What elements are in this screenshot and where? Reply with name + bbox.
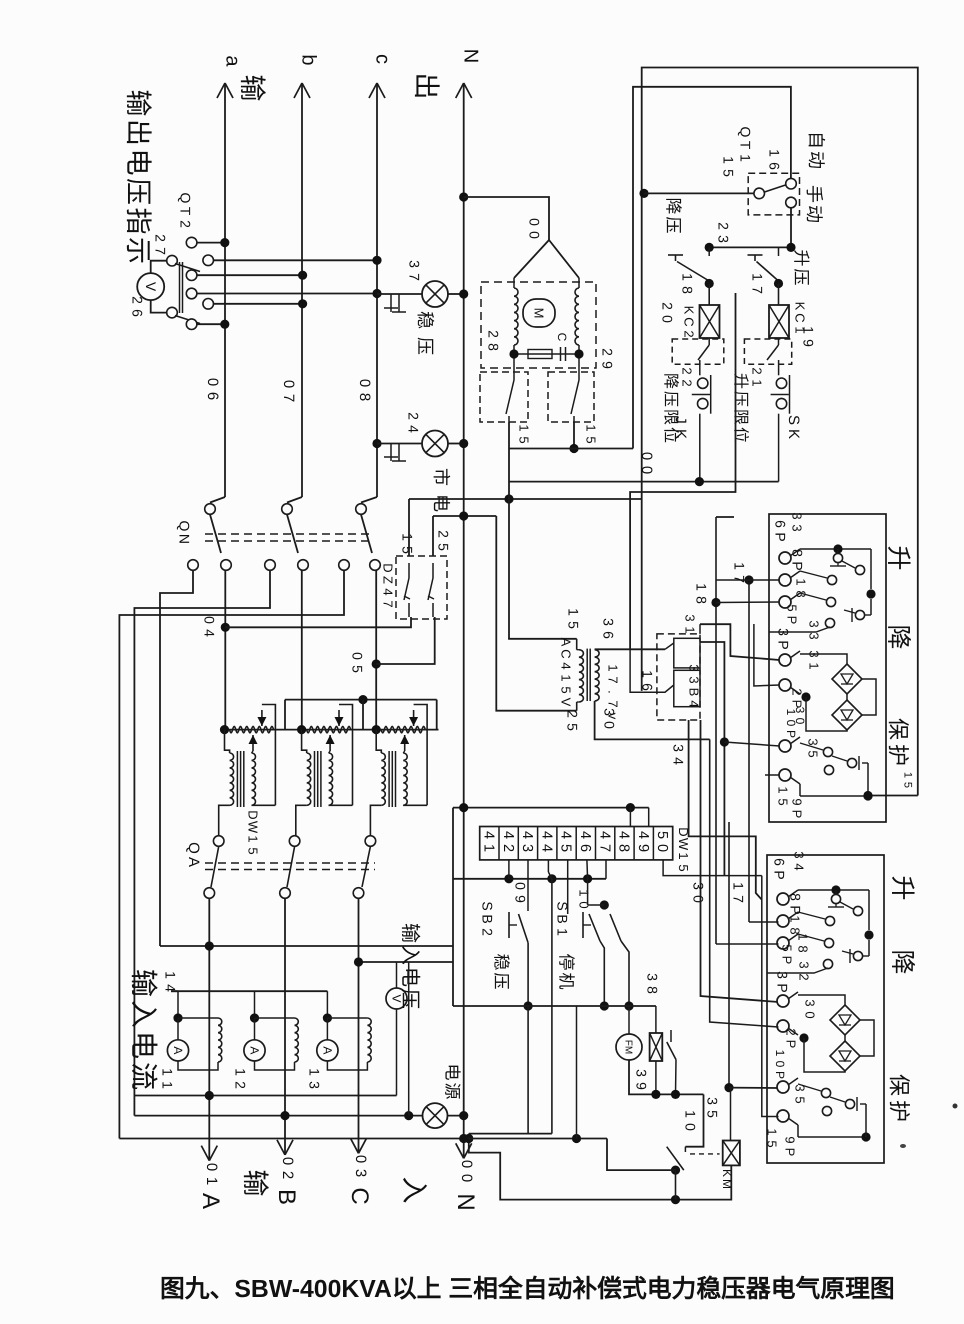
transformer Ta secondary bottom xyxy=(252,804,276,806)
selector QT1 contact manual xyxy=(786,197,797,208)
svg-text:位: 位 xyxy=(732,427,750,443)
node 10-905 xyxy=(600,900,609,909)
terminal 8P box514 xyxy=(779,574,791,586)
node line-c-729 xyxy=(372,725,381,734)
rectifier link box514 xyxy=(846,694,848,700)
wire QT2 to line a lower xyxy=(197,323,225,325)
wire 23 xyxy=(709,246,791,248)
svg-text:1: 1 xyxy=(676,852,691,859)
svg-text:3: 3 xyxy=(704,1097,720,1105)
terminal 8P box855 xyxy=(777,915,789,927)
wire CT loop 12 xyxy=(255,1017,295,1019)
svg-text:限: 限 xyxy=(732,409,749,425)
contact 15R xyxy=(578,368,580,380)
svg-text:A: A xyxy=(197,1193,224,1209)
svg-text:N: N xyxy=(459,49,481,63)
selector QT2 common terminals xyxy=(167,255,178,266)
svg-text:2: 2 xyxy=(152,234,168,242)
wire lamp24 left xyxy=(377,443,422,445)
svg-text:3: 3 xyxy=(352,1169,369,1177)
transformer Ta secondary coil xyxy=(252,753,256,805)
aux contact KC1 blade xyxy=(778,338,780,345)
wire 00 row above strip xyxy=(453,807,649,809)
svg-text:P: P xyxy=(783,1148,798,1157)
wire 33B4 out 34 xyxy=(689,720,762,900)
wire KM top xyxy=(730,1088,732,1141)
wire 15 to QT1 xyxy=(644,192,754,194)
motor unit dashed box xyxy=(481,282,596,368)
wire CT loop 11 xyxy=(178,1017,218,1019)
svg-text:8: 8 xyxy=(356,393,373,401)
node N-516 xyxy=(459,511,468,520)
svg-text:K: K xyxy=(793,302,808,311)
svg-text:8: 8 xyxy=(794,590,809,597)
wire row2 y1115 xyxy=(134,1115,422,1117)
svg-text:a: a xyxy=(221,55,243,67)
svg-text:入: 入 xyxy=(128,1000,159,1028)
selector QT2 contact b2 xyxy=(203,299,214,310)
selector QT2 contact b1 xyxy=(186,270,197,281)
selector QT2 contact a1 xyxy=(186,237,197,248)
svg-text:5: 5 xyxy=(793,1096,808,1103)
svg-text:0: 0 xyxy=(659,315,675,323)
breaker QN pole b blade xyxy=(287,515,298,554)
wire net16 jog xyxy=(630,649,674,692)
svg-text:V: V xyxy=(143,282,159,292)
wire N to motor fork xyxy=(464,197,549,240)
wire 35 net xyxy=(728,822,730,1088)
node FM-top xyxy=(624,1001,633,1010)
wire tap riser a xyxy=(284,700,286,730)
node 44-drop xyxy=(547,874,556,883)
svg-text:3: 3 xyxy=(806,738,821,745)
breaker QA pole a xyxy=(213,836,224,847)
svg-text:示: 示 xyxy=(123,237,153,264)
node 17-580 xyxy=(744,575,753,584)
wire SB2 net drop xyxy=(527,1006,529,1134)
wire 33B4 out 31 xyxy=(700,624,780,660)
svg-text:输: 输 xyxy=(240,1170,270,1197)
lamp37 series marks xyxy=(390,294,392,312)
svg-text:3: 3 xyxy=(807,632,822,639)
AC transformer primary coil xyxy=(576,639,578,650)
svg-text:1: 1 xyxy=(246,835,261,842)
breaker QN pole c blade xyxy=(361,515,372,554)
svg-text:4: 4 xyxy=(538,831,554,839)
wire output line b (07) xyxy=(301,83,303,497)
svg-text:1: 1 xyxy=(481,844,497,852)
svg-text:D: D xyxy=(246,810,261,819)
svg-text:出: 出 xyxy=(411,73,441,100)
svg-text:1: 1 xyxy=(731,562,747,570)
node c-293 xyxy=(372,289,381,298)
svg-text:0: 0 xyxy=(280,380,297,388)
svg-text:8: 8 xyxy=(616,844,632,852)
terminal 5Pa box855 xyxy=(777,937,789,949)
capacitor C xyxy=(560,347,562,361)
svg-text:压: 压 xyxy=(791,269,810,286)
transformer Tb secondary coil xyxy=(329,753,333,805)
svg-text:1: 1 xyxy=(399,533,415,541)
wire 50 to box2 xyxy=(663,860,762,876)
svg-text:8: 8 xyxy=(796,945,811,952)
svg-text:压: 压 xyxy=(415,337,435,355)
svg-text:4: 4 xyxy=(381,588,396,595)
indicator lamp power 电源 xyxy=(423,1103,448,1128)
CT coil 12 xyxy=(295,1018,299,1062)
svg-text:压: 压 xyxy=(491,973,510,990)
svg-text:停: 停 xyxy=(556,954,575,971)
wire AC secondary bottom (30) xyxy=(595,701,710,739)
svg-text:9: 9 xyxy=(512,895,528,903)
svg-text:1: 1 xyxy=(203,1177,220,1185)
relay 33B4 blade upper xyxy=(665,643,674,649)
wire flag bottom xyxy=(655,1061,657,1094)
button lower (降) T-bar xyxy=(668,254,683,256)
aux contact box KC1 xyxy=(744,339,791,364)
contact 10P group box855 xyxy=(821,1088,830,1097)
wire tap riser b xyxy=(362,700,364,730)
motor coil left xyxy=(514,288,518,345)
selector QT1 common xyxy=(754,188,765,199)
wire DZ47 pole1 to 15 bus xyxy=(408,499,410,556)
CT coil 13 xyxy=(367,1018,371,1062)
breaker QN pole c bottom contacts xyxy=(339,560,350,571)
svg-text:3: 3 xyxy=(803,999,818,1006)
svg-text:9: 9 xyxy=(599,361,615,369)
svg-text:7: 7 xyxy=(381,600,396,607)
voltmeter V input xyxy=(386,988,407,1009)
flag box 38 xyxy=(655,1006,657,1033)
svg-text:3: 3 xyxy=(807,620,822,627)
node line-b-729 xyxy=(297,725,306,734)
node 10P1-branch xyxy=(720,737,729,746)
relay coil KC1 xyxy=(778,284,780,306)
ammeter A11 xyxy=(167,1040,188,1061)
svg-text:P: P xyxy=(784,730,798,738)
svg-text:0: 0 xyxy=(638,452,655,460)
svg-text:0: 0 xyxy=(803,1011,818,1018)
transformer Tc tap rectangle xyxy=(414,705,428,806)
wire ammeter top 13 xyxy=(326,1018,328,1040)
wire series winding line xyxy=(225,729,439,731)
button SB1 drop from 45 xyxy=(567,860,569,914)
breaker DZ47 dashed box xyxy=(396,556,447,619)
wire output line c (08) xyxy=(376,83,378,497)
wire 10 row xyxy=(588,904,605,906)
lamp24 series marks xyxy=(390,444,392,462)
wire DZ47 pole2 to 25 bus xyxy=(432,516,434,556)
wire tap common bus xyxy=(285,699,437,701)
relay 33B4 body stub xyxy=(699,624,701,634)
wire net36 xyxy=(630,293,735,649)
node 576-1138 xyxy=(572,1134,581,1143)
breaker QN pole c top xyxy=(361,497,377,503)
svg-text:4: 4 xyxy=(559,662,574,669)
CT drop 12 xyxy=(254,991,256,1018)
svg-text:6: 6 xyxy=(577,844,593,852)
svg-text:A: A xyxy=(185,857,202,867)
wire 9P bottom box514 xyxy=(799,784,801,796)
svg-text:P: P xyxy=(772,532,788,541)
svg-text:C: C xyxy=(555,333,569,342)
wire 44 net drop xyxy=(551,879,553,1134)
contact 2P to rectifier box855 xyxy=(799,1033,808,1042)
wire AC secondary top (36) xyxy=(595,648,665,650)
transformer Tb tap arrow up xyxy=(329,735,331,751)
node line-a-729 xyxy=(220,725,229,734)
wire JK riser to QT1 xyxy=(633,87,791,449)
svg-text:A: A xyxy=(171,1046,185,1054)
ammeter A13 xyxy=(317,1040,338,1061)
svg-text:动: 动 xyxy=(804,205,824,223)
svg-text:2: 2 xyxy=(435,530,451,538)
svg-text:降: 降 xyxy=(662,373,680,389)
node 17-button xyxy=(774,279,783,288)
terminal 2P box855 xyxy=(777,1020,789,1032)
transformer Tc core xyxy=(388,751,390,807)
wire input line C xyxy=(358,899,360,1154)
wire QT1 manual to 23 xyxy=(790,208,792,247)
svg-text:输: 输 xyxy=(398,923,420,943)
wire left contact to net15 xyxy=(508,422,510,639)
svg-text:入: 入 xyxy=(399,1177,429,1204)
svg-text:b: b xyxy=(297,54,319,65)
wire QN a-right down (04 net) xyxy=(224,571,226,730)
button SB2 blade xyxy=(519,914,529,943)
svg-text:5: 5 xyxy=(806,750,821,757)
wire tap to 49 xyxy=(648,808,650,827)
wire FM top xyxy=(628,1006,630,1034)
transformer Tb series winding xyxy=(307,726,351,732)
svg-text:K: K xyxy=(672,429,689,439)
svg-text:5: 5 xyxy=(349,665,365,673)
svg-text:C: C xyxy=(682,317,697,326)
svg-text:0: 0 xyxy=(690,895,706,903)
svg-text:5: 5 xyxy=(654,831,670,839)
node 655-1094 xyxy=(651,1090,660,1099)
svg-text:3: 3 xyxy=(715,235,731,243)
selector QT2 contact a2 xyxy=(186,319,197,330)
svg-text:1: 1 xyxy=(749,273,765,281)
svg-text:1: 1 xyxy=(606,664,621,671)
svg-text:0: 0 xyxy=(512,882,528,890)
svg-text:2: 2 xyxy=(659,302,675,310)
svg-text:3: 3 xyxy=(406,260,422,268)
svg-text:6: 6 xyxy=(772,520,788,528)
svg-text:M: M xyxy=(532,308,547,319)
wire net17 riser xyxy=(748,580,750,922)
wire 04 to DZ47 pole1 xyxy=(225,617,411,627)
svg-text:电: 电 xyxy=(431,494,451,512)
wire CT bus left end xyxy=(171,990,178,992)
svg-text:Z: Z xyxy=(381,576,396,584)
svg-text:自: 自 xyxy=(806,131,826,149)
wire SB1 down 2 xyxy=(621,941,629,1006)
svg-text:出: 出 xyxy=(123,119,153,146)
svg-text:压: 压 xyxy=(732,391,749,407)
wire input line B xyxy=(284,899,286,1155)
contact 10 link dashes xyxy=(690,1153,720,1155)
transformer Tc primary bottom to QA xyxy=(370,805,381,835)
svg-text:4: 4 xyxy=(481,831,497,839)
svg-text:7: 7 xyxy=(731,575,747,583)
svg-text:5: 5 xyxy=(399,546,415,554)
svg-text:2: 2 xyxy=(680,367,695,374)
wire row y946 xyxy=(160,945,453,947)
wire QT2 to line b lower xyxy=(214,303,303,305)
wire net15 to AC primary xyxy=(508,638,577,640)
wire 00 bus xyxy=(509,481,779,483)
svg-text:1: 1 xyxy=(159,1068,175,1076)
relay coil KM xyxy=(723,1141,740,1166)
wire QN c-left to input C riser xyxy=(119,571,344,1139)
svg-text:1: 1 xyxy=(796,933,811,940)
svg-text:0: 0 xyxy=(349,652,365,660)
node 18-button xyxy=(705,279,714,288)
svg-text:7: 7 xyxy=(152,247,168,255)
svg-text:8: 8 xyxy=(644,986,660,994)
wire motor fork right xyxy=(549,240,579,278)
svg-text:0: 0 xyxy=(682,1123,698,1131)
wire box1 15 out xyxy=(869,795,918,797)
svg-text:3: 3 xyxy=(793,1084,808,1091)
svg-text:5: 5 xyxy=(435,543,451,551)
svg-text:1: 1 xyxy=(720,156,736,164)
svg-text:2: 2 xyxy=(405,412,421,420)
contact box 15 left (under motor) xyxy=(480,372,528,422)
svg-text:稳: 稳 xyxy=(491,954,510,971)
button lower blade xyxy=(677,262,709,282)
svg-text:降: 降 xyxy=(884,624,912,649)
svg-text:3: 3 xyxy=(790,512,805,519)
svg-text:1: 1 xyxy=(765,1128,780,1135)
contact box 15 right (under motor) xyxy=(548,372,594,422)
svg-text:8: 8 xyxy=(693,596,709,604)
resistor 28 xyxy=(528,350,552,359)
svg-text:0: 0 xyxy=(526,231,542,239)
wire tap to 48 xyxy=(629,808,631,827)
button SB2 drop from 43 xyxy=(527,860,529,911)
wire net15 bus xyxy=(409,498,642,500)
breaker QN pole a top xyxy=(210,497,225,503)
CT drop 13 xyxy=(326,991,328,1018)
CT coil 11 xyxy=(218,1018,222,1062)
svg-text:K: K xyxy=(785,429,802,439)
svg-text:升: 升 xyxy=(888,875,916,900)
svg-text:6: 6 xyxy=(771,858,787,866)
svg-text:3: 3 xyxy=(687,676,702,683)
svg-text:8: 8 xyxy=(679,286,695,294)
svg-text:降: 降 xyxy=(888,949,916,974)
breaker QN pole a blade xyxy=(210,515,221,554)
svg-text:保: 保 xyxy=(886,718,911,740)
wire 35 to 10P2 xyxy=(729,1087,779,1089)
wire 9P box1 stub xyxy=(765,774,780,776)
wire QT2 to line c lower xyxy=(197,293,377,295)
button SB2 T-bar xyxy=(508,912,510,938)
svg-text:3: 3 xyxy=(683,614,698,621)
svg-text:保: 保 xyxy=(887,1074,912,1096)
wire 18 to 5P box1 xyxy=(716,601,780,604)
wire 33B4 out 30 xyxy=(701,720,779,1002)
terminal 9P box514 xyxy=(779,769,791,781)
rectifier diamond 1 box514 xyxy=(832,664,862,694)
wire 47 drop xyxy=(605,860,607,879)
node C-962 xyxy=(354,957,363,966)
wire 17 to 8P box2 xyxy=(749,921,779,923)
contact 38 blade xyxy=(670,1030,672,1042)
wire lamp37 left xyxy=(377,293,422,295)
svg-text:v: v xyxy=(606,713,621,720)
svg-text:B: B xyxy=(273,1189,300,1205)
svg-text:C: C xyxy=(559,649,574,658)
svg-text:1: 1 xyxy=(766,149,782,157)
terminal 3P box514 xyxy=(779,654,791,666)
svg-text:0: 0 xyxy=(203,1163,220,1171)
svg-text:V: V xyxy=(559,698,574,707)
wire y448 to JK riser xyxy=(509,448,633,450)
svg-text:5: 5 xyxy=(676,864,691,871)
svg-text:Q: Q xyxy=(176,521,192,532)
svg-text:1: 1 xyxy=(232,1068,248,1076)
wire resistor row xyxy=(513,345,515,368)
svg-text:电: 电 xyxy=(128,1031,159,1059)
node b-275 xyxy=(298,271,307,280)
svg-text:2: 2 xyxy=(479,928,495,936)
node 00-699 xyxy=(695,477,704,486)
svg-text:0: 0 xyxy=(638,466,655,474)
wire 10 bottom to 1199 xyxy=(675,1170,677,1200)
wire ammeter top 11 xyxy=(177,1018,179,1040)
wire net25 bus xyxy=(433,515,496,517)
svg-text:N: N xyxy=(176,534,192,544)
wire 18 to 5P box2 xyxy=(716,943,779,945)
wire row3 y1138 xyxy=(119,1138,607,1140)
svg-text:1: 1 xyxy=(776,786,791,793)
selector QT2 blade top xyxy=(175,264,200,272)
wire tap riser c xyxy=(436,700,438,730)
svg-text:电: 电 xyxy=(123,149,153,176)
svg-text:4: 4 xyxy=(558,831,574,839)
motor coil right xyxy=(575,288,579,345)
node box1-15 xyxy=(863,791,872,800)
wire 1006 row xyxy=(453,1005,656,1007)
selector QT2 bar xyxy=(179,262,181,313)
svg-text:1: 1 xyxy=(162,971,178,979)
svg-text:B: B xyxy=(479,914,495,923)
svg-text:5: 5 xyxy=(517,436,532,443)
svg-text:1: 1 xyxy=(565,608,581,616)
wire QT2 to line c upper xyxy=(214,259,377,261)
node SB2-1006 xyxy=(524,1001,533,1010)
relay 33B4 dashed box xyxy=(657,634,700,720)
svg-text:输: 输 xyxy=(123,90,153,117)
svg-text:1: 1 xyxy=(800,326,816,334)
svg-text:D: D xyxy=(381,563,396,572)
wire lamp power right xyxy=(448,1115,464,1117)
svg-text:3: 3 xyxy=(774,971,790,979)
svg-text:0: 0 xyxy=(201,616,217,624)
wire voltmeter to selector top xyxy=(151,261,167,273)
svg-text:升: 升 xyxy=(791,250,810,267)
node N-197 xyxy=(459,192,468,201)
transformer Tb primary coil xyxy=(302,730,307,753)
svg-text:0: 0 xyxy=(654,844,670,852)
svg-text:4: 4 xyxy=(500,831,516,839)
svg-text:5: 5 xyxy=(558,844,574,852)
svg-text:1: 1 xyxy=(737,154,753,162)
